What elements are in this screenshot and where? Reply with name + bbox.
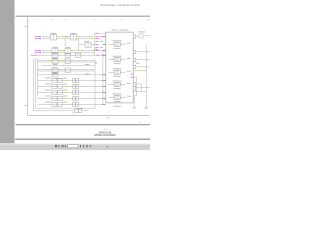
control unit U1 title part 1 [112, 29, 118, 31]
junction box outline outer [33, 59, 35, 111]
servo motor M4 [109, 81, 131, 89]
wire colour code Y bank row 2 [65, 85, 67, 87]
relay KB3 half a [52, 91, 57, 95]
pin label right P3 [136, 62, 139, 64]
svg-text:Motorcircuits - Climate air co: Motorcircuits - Climate air controls [100, 3, 140, 7]
toolbar dot right [107, 146, 108, 147]
connector XB3 half a [73, 91, 76, 95]
wire row A colour code Y mid [62, 36, 64, 38]
fuse F6 label [52, 67, 57, 69]
relay bank row 3 pin label [63, 89, 68, 91]
pin label right P1 [130, 73, 133, 75]
relay K2 [70, 34, 76, 40]
wire row C colour code Y a [60, 54, 62, 56]
wire row D colour code G at pin [95, 62, 97, 64]
relay KB5 half a [52, 103, 57, 107]
wire row F lower [38, 70, 95, 72]
unit pin tick row B [103, 50, 106, 52]
wire row A segment 3 lower [77, 37, 94, 39]
wire pin1 to blower motor [136, 36, 139, 38]
svg-text:4-17: 4-17 [106, 118, 111, 120]
resistor R1 [85, 42, 91, 47]
wire bus vertical at unit pins [102, 51, 104, 105]
toolbar glyph menu a [61, 145, 63, 148]
wire row A segment 3 upper [77, 36, 94, 38]
wire row y70.8 to drop [133, 70, 146, 72]
toolbar glyph bar [58, 145, 59, 148]
relay KB4 half a [52, 97, 57, 101]
blower motor M6 label [138, 31, 145, 33]
wire row L lead [34, 110, 75, 112]
wire colour code G near bus [95, 48, 97, 50]
wire row A colour code P lower [35, 37, 38, 39]
viewer bottom status bar [0, 143, 150, 150]
wire link drop2 to drop3 [134, 95, 137, 97]
wire bus vertical at unit left [94, 33, 96, 55]
toolbar glyph tick 2 [83, 145, 84, 148]
wire bank row 3 [38, 91, 104, 93]
wire colour code Y right b [145, 70, 147, 72]
relay bank row 1 name label [45, 77, 52, 79]
wire row A colour code Y at pin [91, 36, 93, 38]
pin label 4A [96, 54, 99, 56]
terminator right drop 3 [132, 107, 136, 109]
wire node B to R1 [79, 44, 85, 46]
pin label 2C [95, 47, 98, 49]
resistor R1 label [84, 40, 89, 42]
relay bank row 4 name label [45, 95, 52, 97]
relay K2 label [71, 32, 77, 34]
wire colour code Y bank row 1 [65, 79, 67, 81]
fuse F1 value label [53, 57, 58, 59]
wire row D colour code Y a [60, 59, 62, 61]
relay bank row 2 name label [45, 83, 52, 85]
connector XB2 half a [73, 85, 76, 89]
control unit U1 [106, 32, 133, 103]
relay KB4 half b [57, 97, 62, 101]
connector XB1 half a [73, 79, 76, 83]
relay KB2 half b [57, 85, 62, 89]
relay bank row 5 name label [45, 101, 52, 103]
wire drop from row A at node A [64, 38, 66, 46]
wire row B colour code Y at pin [93, 50, 95, 52]
svg-text:WIRING DIAGRAMS: WIRING DIAGRAMS [94, 134, 116, 137]
fuse F1 [52, 53, 58, 57]
wire right drop 2 [136, 77, 138, 95]
wire row D colour code Y pre [48, 59, 50, 61]
relay bank row 1 pin label [63, 77, 68, 79]
toolbar glyph menu b [65, 145, 67, 148]
relay KB5 half b [57, 103, 62, 107]
page background [0, 0, 150, 150]
pin number 1A [100, 36, 102, 38]
relay K3 [52, 49, 58, 54]
fuse F7 [65, 68, 70, 72]
wire row A segment 1 lower [42, 37, 50, 39]
wire row B colour code V upper [38, 50, 41, 52]
wire row D lower [38, 61, 95, 63]
wire row A colour code P upper [35, 36, 38, 38]
pin label 2A [95, 41, 98, 43]
relay K3 label [52, 47, 58, 49]
relay K5 [52, 73, 58, 77]
unit pin tick row C [103, 54, 106, 56]
toolbar glyph tick 4 [90, 145, 92, 147]
wire U1 lower right link [133, 90, 146, 92]
viewer left gray gutter [0, 0, 15, 143]
blower motor M6 [139, 33, 144, 38]
U1 right pin 3 [133, 58, 136, 62]
unit pin tick bank row 5 [103, 103, 106, 105]
pin number 4A [101, 54, 103, 56]
relay K4 label [65, 47, 70, 49]
wire row B colour code P upper [35, 50, 38, 52]
wire row F colour code Y a [60, 68, 62, 70]
toolbar glyph tick 1 [80, 145, 81, 148]
wire bank row 5 [38, 103, 104, 105]
wire row A colour code Y after K2 [77, 36, 79, 38]
wire row A segment 2 lower [57, 37, 71, 39]
wire row E [42, 65, 95, 67]
wire row B segment 1 upper [42, 50, 52, 52]
pin label 1B [95, 37, 98, 39]
U1 right pin 6 [133, 86, 136, 90]
wire right drop 1 [145, 44, 147, 108]
wire row C colour code Y d [93, 54, 95, 56]
wire colour code Y bank row 4 [65, 97, 67, 99]
unit pin tick bank row 1 [103, 79, 106, 81]
unit pin tick bank row 2 [103, 85, 106, 87]
svg-text:MAZDA 626: MAZDA 626 [99, 131, 112, 134]
wire row C colour code V [34, 54, 36, 56]
wire colour code Y bank row 3 [65, 91, 67, 93]
relay bank row 5 pin label [63, 101, 68, 103]
relay bank row 3 name label [45, 89, 52, 91]
relay bank row 2 pin label [63, 83, 68, 85]
wire row E colour code Y [62, 65, 64, 67]
wire pin5 stub [136, 83, 142, 85]
servo motor M2 [109, 56, 131, 64]
pin label 0A [95, 32, 98, 34]
wire colour code Y right a [140, 70, 142, 72]
wire colour code Y bank row 5 [65, 103, 67, 105]
toolbar glyph block 1 [55, 145, 57, 148]
wire colour code Y right row2 [137, 51, 139, 53]
wire pin6 to right edge [136, 87, 150, 89]
servo motor M5 [109, 94, 131, 102]
wire row G name label [85, 73, 90, 75]
pin label 2B [95, 44, 98, 46]
wire row C colour code P [31, 54, 34, 56]
servo motor M3 [109, 69, 131, 77]
wire R1 to unit [91, 44, 95, 46]
fuse F2 [65, 53, 70, 57]
pin label 1A [95, 36, 98, 38]
drawing frame left border [27, 17, 29, 115]
frame fold mark lower [24, 105, 27, 107]
wire row B colour code V lower [38, 51, 41, 53]
wire row A colour code V upper [38, 36, 41, 38]
connector XB3 half b [76, 91, 79, 95]
wire row y77.3 to drop [133, 76, 137, 78]
grid reference numbers row [23, 20, 150, 22]
wire row A colour code G mid [65, 36, 67, 38]
wire bank row 4 [38, 97, 104, 99]
wire M6 to right edge [144, 35, 150, 37]
U1 right pin 5 [133, 83, 136, 87]
connector X5 half b [78, 109, 81, 113]
wire row A segment 2 upper [57, 36, 71, 38]
fuse F1 label [52, 51, 57, 53]
connector XB5 half a [73, 103, 76, 107]
junction box outline middle [36, 59, 96, 109]
wire bank row 1 [38, 79, 104, 81]
wire row F colour code Y b [72, 68, 74, 70]
toolbar page number field [68, 144, 78, 147]
wire row F colour code Y pre [48, 68, 50, 70]
control unit U1 bottom label [113, 105, 121, 107]
wire row B colour code Y after K4 [71, 50, 73, 52]
control unit U1 title part 2 [119, 29, 129, 31]
wire pin2 to right edge [136, 51, 150, 53]
unit pin tick bank row 3 [103, 91, 106, 93]
connector XB1 half b [76, 79, 79, 83]
wire row G [38, 74, 104, 76]
connector XB4 half a [73, 97, 76, 101]
wire right drop 3 [133, 96, 135, 108]
fuse F6 [52, 68, 58, 72]
connector XB2 half b [76, 85, 79, 89]
wire row B segment 2 lower [58, 51, 65, 53]
wire row D colour code Y b [72, 59, 74, 61]
wire row F upper [38, 68, 95, 70]
wire row B segment 2 upper [58, 50, 65, 52]
relay K1 [50, 34, 56, 40]
relay KB3 half b [57, 91, 62, 95]
relay K1 label [51, 32, 57, 34]
unit pin tick row R1 [103, 44, 106, 46]
wire row C colour code Y b [72, 54, 74, 56]
wire bank row 2 [38, 85, 104, 87]
fuse F4 label [52, 58, 57, 60]
wire row A colour code V lower [38, 37, 41, 39]
relay K4 [65, 49, 71, 54]
frame fold mark upper [24, 26, 27, 28]
fuse F5 [65, 59, 70, 63]
wire right drop 4 [140, 84, 142, 92]
fuse F6 value label [53, 72, 58, 74]
connector XB4 half b [76, 97, 79, 101]
wire row A segment 1 upper [42, 36, 50, 38]
unit pin tick row G [103, 74, 106, 76]
wire row C [37, 54, 104, 56]
wire row G colour code Y [62, 74, 64, 76]
wire row D upper [38, 59, 95, 61]
wire pin4 to right edge [136, 66, 150, 68]
U1 right pin 2 [133, 50, 136, 54]
wire row C colour code Y c [82, 54, 84, 56]
relay bank row 4 pin label [63, 95, 68, 97]
fuse F4 value label [53, 63, 58, 65]
pin label 3A [96, 50, 99, 52]
connector X5 half a [75, 109, 78, 113]
relay KB1 half b [57, 79, 62, 83]
wire row B colour code Y mid [59, 50, 61, 52]
connector XB5 half b [76, 103, 79, 107]
wire pin stub top [95, 32, 106, 34]
pin number 2C [100, 47, 102, 49]
wire row B segment 3 lower [71, 51, 95, 53]
wire row B colour code Y mid 2 [62, 50, 64, 52]
pin number 2A [100, 41, 102, 43]
servo motor M1 [109, 41, 131, 49]
relay K5 label [52, 73, 57, 75]
terminator right drop 1 [144, 107, 148, 109]
wire row E name label [85, 63, 90, 65]
relay KB2 half a [52, 85, 57, 89]
unit pin tick bank row 4 [103, 97, 106, 99]
relay KB1 half a [52, 79, 57, 83]
page top rule [16, 15, 151, 17]
wire pin3 to right edge [136, 59, 150, 61]
drawing frame bottom border [28, 115, 150, 117]
toolbar glyph tick 3 [86, 145, 88, 148]
junction box outline inner [37, 59, 39, 97]
pin label right P2 [130, 76, 133, 78]
fuse F3 [75, 53, 80, 57]
fuse F4 [52, 59, 58, 63]
wire row B colour code P lower [35, 51, 38, 53]
unit pin tick row A [103, 36, 106, 38]
ground G1 label [77, 108, 83, 110]
wire row B segment 3 upper [71, 50, 104, 52]
relay K5 value label [55, 77, 62, 79]
wire row B colour code Y mid 3 [81, 50, 83, 52]
next page top rule [15, 138, 150, 140]
U1 right pin 4 [133, 65, 136, 69]
U1 right pin 1 [133, 35, 136, 39]
page bottom rule [16, 124, 151, 126]
wire row A colour code Y at pin lower [91, 37, 93, 39]
wire row L tail [82, 110, 89, 112]
wire row B segment 1 lower [42, 51, 52, 53]
wire drop from row A at node B [78, 38, 80, 50]
